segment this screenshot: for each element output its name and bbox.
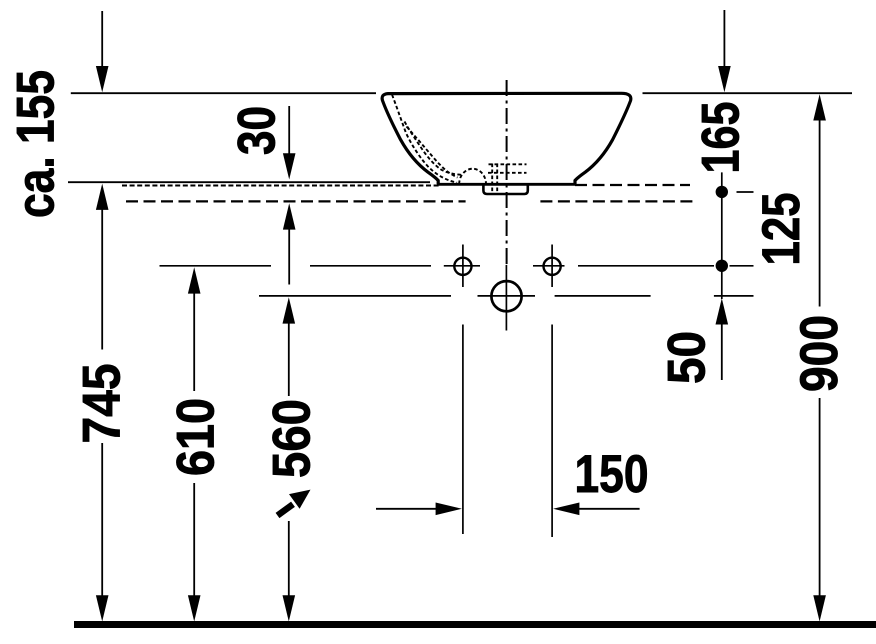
dimension 745 bottom arrowhead	[96, 595, 109, 621]
crosshair vertical faucet left	[462, 245, 464, 288]
faucet axis extension line segment 6	[730, 265, 754, 267]
supply connection dot upper	[716, 186, 728, 198]
dashed plate line lower right	[540, 200, 693, 202]
dimension 610 upper shaft	[193, 292, 195, 391]
drain axis extension line segment 2	[478, 295, 536, 297]
supply connection dot lower	[716, 260, 728, 272]
dimension 745 lower shaft	[101, 443, 103, 599]
dimension 150 right arrowhead	[553, 503, 579, 516]
dimension 900 lower shaft	[819, 398, 821, 599]
faucet axis extension line segment 3	[444, 265, 480, 267]
dimension 900 top arrowhead	[813, 94, 826, 120]
inner wall dashed curve B	[405, 122, 462, 175]
faucet axis extension line segment 1	[160, 265, 272, 267]
counter top reference line left	[71, 92, 376, 94]
crosshair vertical faucet right	[551, 245, 553, 288]
dimension 150 extension line right	[551, 325, 553, 538]
dashed drain pipe vertical left	[491, 164, 493, 193]
dimension 50 shaft	[721, 323, 723, 380]
svg-text:165: 165	[692, 102, 751, 174]
floor line	[74, 621, 876, 628]
faucet hole circle left	[454, 258, 471, 275]
dashed plate line lower left	[126, 200, 466, 202]
dimension 610 lower shaft	[193, 483, 195, 599]
dimension 900 bottom arrowhead	[813, 595, 826, 621]
supply connection short line	[737, 191, 754, 193]
faucet axis extension line segment 2	[310, 265, 431, 267]
dimension 30 down arrowhead	[283, 153, 296, 179]
dashed plate line upper left	[122, 185, 440, 187]
dimension 150 right arrow shaft	[578, 508, 640, 510]
drain axis extension line segment 4	[714, 295, 754, 297]
dimension 165 top arrowhead	[718, 66, 731, 92]
svg-text:125: 125	[752, 193, 811, 266]
drain axis extension line segment 1	[259, 295, 451, 297]
dimension 165 top arrow shaft	[723, 10, 725, 68]
dimension 610 top arrowhead	[188, 267, 201, 293]
inner wall dashed curve C	[407, 127, 458, 178]
reference arrow northeast	[278, 490, 311, 516]
dimension 30 upper shaft	[288, 106, 290, 162]
dimension 150 left arrowhead	[436, 503, 462, 516]
dimension ca.155 top arrow shaft	[101, 11, 103, 68]
dimension 30 lower shaft	[288, 228, 290, 285]
svg-text:610: 610	[167, 398, 226, 476]
washbasin foot line	[437, 183, 576, 186]
dimension 745 upper shaft	[101, 209, 103, 350]
washbasin bowl outline	[382, 93, 631, 184]
dimension 745 top arrowhead	[96, 184, 109, 210]
svg-text:900: 900	[790, 315, 849, 392]
dimension 560 bottom arrowhead	[283, 595, 296, 621]
dimension 150 extension line left	[462, 325, 464, 535]
svg-text:150: 150	[575, 445, 649, 504]
drain axis extension line segment 3	[555, 295, 651, 297]
dashed drain horizontal lower	[488, 172, 527, 174]
svg-text:50: 50	[658, 331, 717, 384]
dimension 50 arrowhead	[716, 298, 729, 324]
dashed drain arch	[459, 169, 486, 184]
svg-text:745: 745	[73, 364, 132, 444]
svg-text:30: 30	[228, 106, 287, 155]
connection vertical line	[721, 172, 723, 299]
dimension 560 lower shaft	[288, 521, 290, 599]
dimension ca.155 top arrowhead	[96, 66, 109, 92]
svg-text:ca. 155: ca. 155	[7, 70, 66, 218]
dimension 560 upper shaft	[288, 322, 290, 396]
counter top reference line right	[643, 92, 853, 94]
inner wall dashed curve A	[392, 95, 457, 183]
dimension 610 bottom arrowhead	[188, 595, 201, 621]
dashed plate line upper right	[575, 184, 690, 186]
faucet axis extension line segment 5	[578, 265, 714, 267]
crosshair vertical drain	[505, 265, 507, 331]
svg-text:560: 560	[263, 399, 322, 478]
dimension 150 left arrow shaft	[376, 508, 437, 510]
dashed drain horizontal upper	[489, 163, 527, 165]
faucet axis extension line segment 4	[533, 265, 565, 267]
dimension 560 top arrowhead	[283, 297, 296, 323]
washbasin centerline	[506, 80, 508, 265]
faucet hole circle right	[544, 258, 561, 275]
drain flange rectangle	[483, 185, 527, 194]
mounting surface solid line	[68, 181, 430, 183]
dimension 30 up arrowhead	[283, 203, 296, 229]
drain hole circle	[491, 281, 521, 311]
dashed drain pipe vertical right	[496, 164, 498, 193]
dimension 900 upper shaft	[819, 119, 821, 307]
